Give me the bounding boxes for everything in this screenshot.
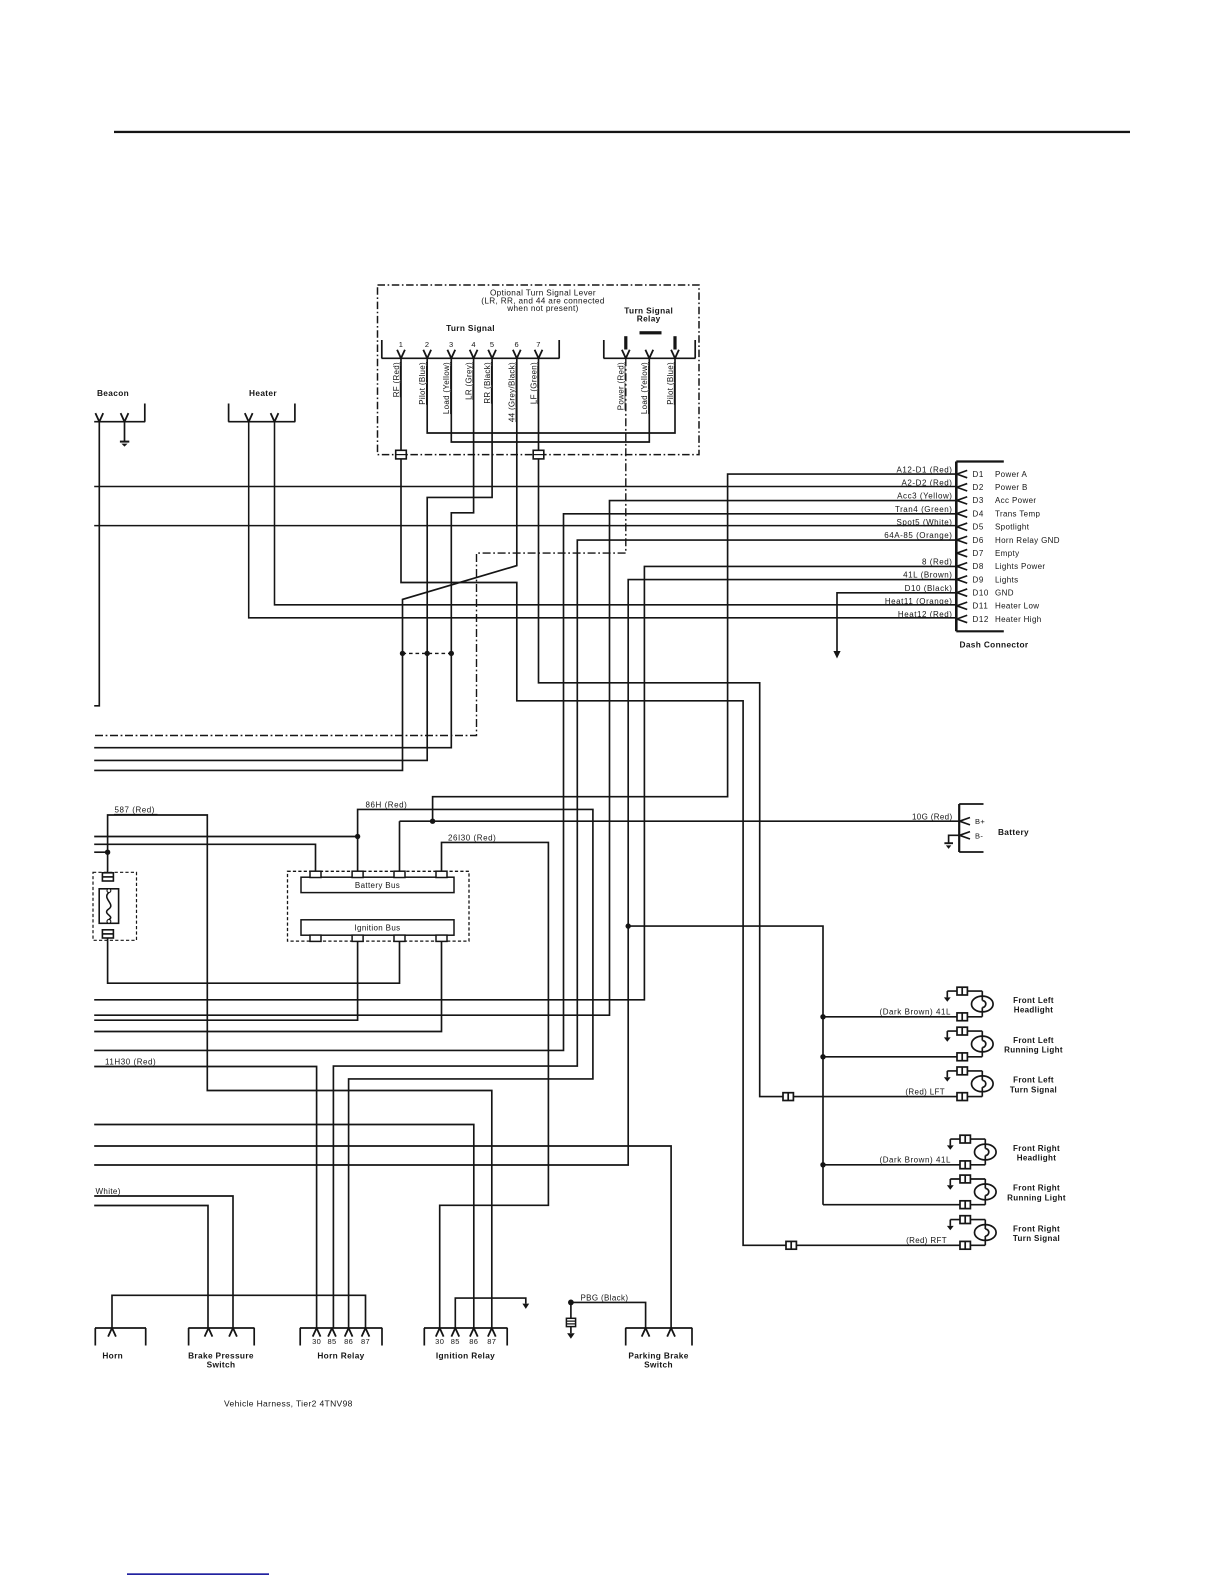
- svg-text:D1: D1: [973, 470, 984, 479]
- svg-text:Turn Signal: Turn Signal: [446, 323, 495, 333]
- svg-text:2: 2: [425, 340, 430, 349]
- svg-text:LR (Grey): LR (Grey): [464, 362, 473, 400]
- svg-text:87: 87: [487, 1337, 496, 1346]
- svg-text:11H30 (Red): 11H30 (Red): [105, 1057, 156, 1066]
- svg-text:Trans Temp: Trans Temp: [995, 509, 1040, 518]
- svg-text:Heater High: Heater High: [995, 615, 1042, 624]
- svg-text:6: 6: [515, 340, 520, 349]
- svg-text:10G (Red): 10G (Red): [912, 812, 953, 821]
- svg-text:Turn Signal: Turn Signal: [1010, 1085, 1057, 1094]
- svg-text:D12: D12: [973, 615, 989, 624]
- svg-text:86: 86: [469, 1337, 478, 1346]
- svg-text:Battery Bus: Battery Bus: [355, 881, 400, 890]
- svg-text:Horn: Horn: [102, 1350, 123, 1360]
- svg-text:Power (Red): Power (Red): [617, 362, 626, 410]
- svg-text:Ignition Bus: Ignition Bus: [354, 924, 400, 933]
- svg-text:Headlight: Headlight: [1014, 1006, 1054, 1015]
- svg-text:Switch: Switch: [644, 1360, 673, 1370]
- svg-text:Power B: Power B: [995, 483, 1028, 492]
- svg-text:30: 30: [435, 1337, 444, 1346]
- svg-text:(Dark Brown) 41L: (Dark Brown) 41L: [880, 1156, 952, 1165]
- svg-text:Acc Power: Acc Power: [995, 496, 1036, 505]
- svg-text:Front Left: Front Left: [1013, 996, 1054, 1005]
- svg-text:Turn Signal: Turn Signal: [1013, 1234, 1060, 1243]
- svg-text:(Red) LFT: (Red) LFT: [905, 1088, 945, 1097]
- svg-text:Lights Power: Lights Power: [995, 562, 1045, 571]
- svg-text:Horn Relay: Horn Relay: [317, 1350, 364, 1360]
- svg-text:5: 5: [490, 340, 495, 349]
- svg-text:Heater: Heater: [249, 388, 277, 398]
- svg-text:Dash Connector: Dash Connector: [960, 640, 1029, 650]
- svg-text:D8: D8: [973, 562, 984, 571]
- svg-text:Running Light: Running Light: [1007, 1194, 1066, 1203]
- svg-text:D6: D6: [973, 536, 984, 545]
- svg-text:D9: D9: [973, 575, 984, 584]
- svg-text:White): White): [96, 1187, 121, 1196]
- svg-text:Front Right: Front Right: [1013, 1184, 1060, 1193]
- svg-text:D10: D10: [973, 588, 989, 597]
- svg-text:Switch: Switch: [207, 1360, 236, 1370]
- svg-text:Horn Relay GND: Horn Relay GND: [995, 536, 1060, 545]
- svg-text:587 (Red): 587 (Red): [115, 805, 156, 814]
- svg-text:26I30 (Red): 26I30 (Red): [448, 834, 496, 843]
- svg-text:87: 87: [361, 1337, 370, 1346]
- svg-text:when not present): when not present): [506, 304, 579, 313]
- svg-text:(Dark Brown) 41L: (Dark Brown) 41L: [880, 1008, 952, 1017]
- svg-text:Load (Yellow): Load (Yellow): [640, 362, 649, 414]
- svg-text:Front Right: Front Right: [1013, 1144, 1060, 1153]
- svg-text:64A-85 (Orange): 64A-85 (Orange): [884, 531, 952, 540]
- svg-text:86: 86: [344, 1337, 353, 1346]
- svg-text:D4: D4: [973, 509, 984, 518]
- svg-text:4: 4: [471, 340, 476, 349]
- svg-text:Vehicle Harness, Tier2 4TNV98: Vehicle Harness, Tier2 4TNV98: [224, 1399, 353, 1409]
- svg-text:B-: B-: [975, 831, 983, 840]
- svg-text:Tran4 (Green): Tran4 (Green): [895, 505, 953, 514]
- svg-text:D11: D11: [973, 602, 989, 611]
- svg-text:Power A: Power A: [995, 470, 1028, 479]
- svg-text:Empty: Empty: [995, 549, 1019, 558]
- svg-text:Load (Yellow): Load (Yellow): [442, 362, 451, 414]
- svg-text:41L (Brown): 41L (Brown): [903, 571, 952, 580]
- svg-text:Spotlight: Spotlight: [995, 523, 1030, 532]
- svg-text:Front Right: Front Right: [1013, 1224, 1060, 1233]
- svg-text:A2-D2 (Red): A2-D2 (Red): [902, 478, 953, 487]
- svg-text:D5: D5: [973, 523, 984, 532]
- svg-text:D10 (Black): D10 (Black): [905, 584, 953, 593]
- svg-text:Heater Low: Heater Low: [995, 602, 1039, 611]
- svg-text:GND: GND: [995, 588, 1014, 597]
- svg-text:1: 1: [399, 340, 404, 349]
- svg-text:Front Left: Front Left: [1013, 1036, 1054, 1045]
- svg-text:85: 85: [451, 1337, 460, 1346]
- svg-text:85: 85: [327, 1337, 336, 1346]
- svg-text:D7: D7: [973, 549, 984, 558]
- svg-text:Ignition Relay: Ignition Relay: [436, 1350, 495, 1360]
- svg-text:Lights: Lights: [995, 575, 1018, 584]
- svg-text:Heat11 (Orange): Heat11 (Orange): [885, 597, 953, 606]
- svg-text:D3: D3: [973, 496, 984, 505]
- svg-text:Battery: Battery: [998, 827, 1029, 837]
- svg-text:30: 30: [312, 1337, 321, 1346]
- svg-text:Running Light: Running Light: [1004, 1046, 1063, 1055]
- svg-text:LF (Green): LF (Green): [529, 362, 538, 404]
- svg-text:Heat12 (Red): Heat12 (Red): [898, 610, 953, 619]
- svg-text:Headlight: Headlight: [1017, 1154, 1057, 1163]
- svg-text:86H (Red): 86H (Red): [366, 801, 408, 810]
- svg-text:PBG (Black): PBG (Black): [581, 1293, 629, 1302]
- svg-text:Pilot (Blue): Pilot (Blue): [418, 362, 427, 405]
- svg-text:Front Left: Front Left: [1013, 1076, 1054, 1085]
- svg-text:Relay: Relay: [637, 314, 661, 324]
- svg-text:44 (Grey/Black): 44 (Grey/Black): [508, 362, 517, 422]
- svg-text:Spot5 (White): Spot5 (White): [896, 518, 952, 527]
- svg-text:D2: D2: [973, 483, 984, 492]
- svg-text:8 (Red): 8 (Red): [922, 557, 953, 566]
- svg-text:Beacon: Beacon: [97, 388, 129, 398]
- svg-text:Acc3 (Yellow): Acc3 (Yellow): [897, 492, 952, 501]
- svg-text:RF (Red): RF (Red): [392, 362, 401, 397]
- svg-text:7: 7: [536, 340, 541, 349]
- svg-text:Pilot (Blue): Pilot (Blue): [666, 362, 675, 405]
- svg-text:RR (Black): RR (Black): [483, 362, 492, 404]
- svg-text:(Red) RFT: (Red) RFT: [906, 1236, 947, 1245]
- svg-text:B+: B+: [975, 817, 985, 826]
- svg-text:3: 3: [449, 340, 454, 349]
- svg-text:A12-D1 (Red): A12-D1 (Red): [897, 465, 953, 474]
